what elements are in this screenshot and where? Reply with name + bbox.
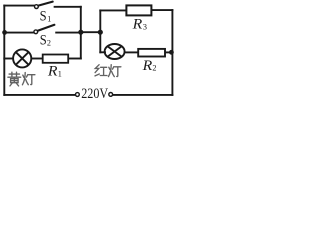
wire bottom right segment <box>113 94 172 96</box>
label yellow lamp 黄灯 <box>8 72 35 86</box>
wire vertical from S1 branch down to node B <box>80 7 82 59</box>
node B junction dot <box>78 30 83 35</box>
wire S2 branch left segment <box>4 32 34 34</box>
svg-text:1: 1 <box>47 14 51 23</box>
terminal left (open circle) <box>76 93 80 97</box>
wire R3 branch right segment <box>152 9 173 11</box>
wire S2 branch right segment <box>56 32 81 34</box>
wire R2 to right vertical <box>165 51 172 53</box>
wire left vertical <box>3 6 5 95</box>
红 <box>95 65 107 76</box>
svg-text:S: S <box>40 9 47 25</box>
node C junction dot <box>98 30 103 35</box>
svg-text:2: 2 <box>152 64 156 73</box>
灯 <box>22 73 35 85</box>
svg-text:2: 2 <box>47 38 51 47</box>
switch S2 <box>34 25 55 34</box>
wire connector node B to node C <box>81 31 101 33</box>
lamp yellow (circle with X) <box>13 49 31 67</box>
wire R1 to node B vertical <box>69 58 81 60</box>
黄 <box>8 72 21 86</box>
label red lamp 红灯 <box>95 65 121 77</box>
wire right vertical <box>171 10 173 95</box>
wire yellow lamp to R1 <box>32 58 43 60</box>
resistor R3 <box>126 5 151 15</box>
wire yellow lamp branch: left vertical to lamp <box>4 58 13 60</box>
svg-text:R: R <box>47 63 58 79</box>
terminal right (open circle) <box>109 93 113 97</box>
node D junction dot on right wire <box>169 50 174 55</box>
wire red lamp to R2 <box>125 51 138 53</box>
resistor R2 <box>138 49 165 57</box>
svg-text:3: 3 <box>143 23 147 32</box>
svg-text:R: R <box>132 17 143 33</box>
svg-text:R: R <box>142 58 153 74</box>
wire vertical from R3 branch down to red lamp branch <box>99 10 101 52</box>
switch S1 <box>35 2 53 9</box>
svg-text:1: 1 <box>58 69 62 78</box>
wire red lamp branch: vertical to lamp <box>100 51 105 53</box>
wire top S1 branch right segment <box>55 6 81 8</box>
node A junction dot on left wire <box>2 30 7 35</box>
wire bottom left segment <box>4 94 75 96</box>
wire top S1 branch left segment <box>4 5 34 7</box>
resistor R1 <box>43 55 68 63</box>
灯 <box>108 65 121 77</box>
lamp red (circle with X) <box>105 44 125 59</box>
svg-text:S: S <box>40 32 47 48</box>
svg-text:220V: 220V <box>81 86 108 102</box>
wire R3 branch left segment <box>100 9 126 11</box>
